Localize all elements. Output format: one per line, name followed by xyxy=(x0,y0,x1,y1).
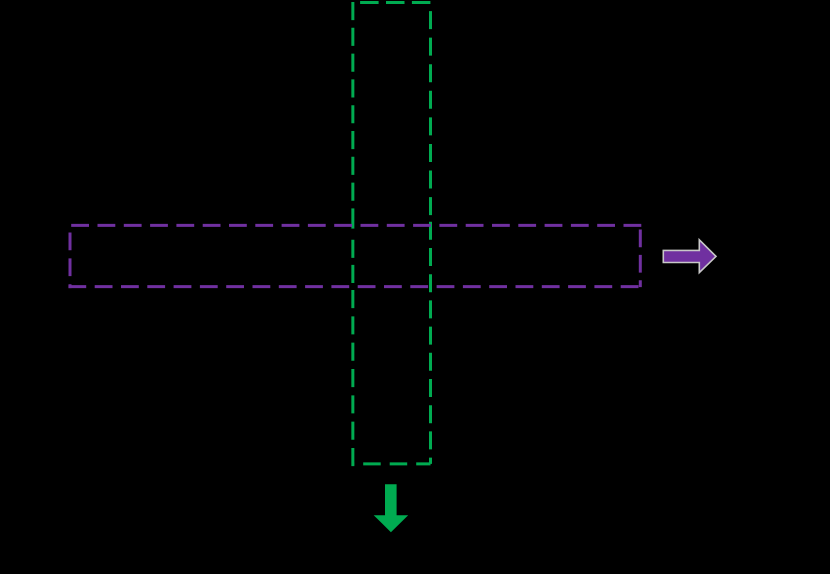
green rect left edge (middle run) xyxy=(351,240,354,283)
green dashed column rectangle xyxy=(353,2,431,466)
purple rect left edge xyxy=(69,225,72,288)
green rect left edge (lower run) xyxy=(351,290,354,466)
green rect bottom edge xyxy=(353,462,431,465)
green rect left edge (dash across purple border) xyxy=(351,208,354,228)
purple rect bottom edge xyxy=(68,285,640,288)
green rect top edge xyxy=(353,1,431,4)
green rect right edge (upper run) xyxy=(429,11,432,215)
green rect right edge (lower run) xyxy=(429,222,432,464)
purple dashed row rectangle xyxy=(68,225,641,288)
purple right block arrow xyxy=(663,240,716,273)
purple rect top edge xyxy=(68,224,641,227)
green rect left edge (upper run) xyxy=(351,2,354,205)
green down block arrow xyxy=(374,484,409,532)
purple rect right edge xyxy=(639,225,642,287)
